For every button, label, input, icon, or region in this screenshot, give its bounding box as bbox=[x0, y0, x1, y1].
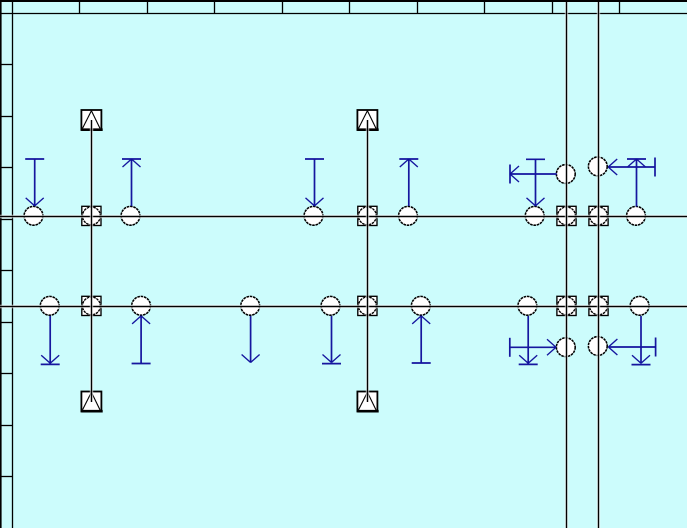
reservoir R4 (square with triangle) bbox=[357, 392, 378, 412]
flow arrow into L4 (left) bbox=[608, 338, 655, 357]
top ruler tick 7 bbox=[484, 2, 486, 14]
vertical pipe D bbox=[597, 2, 600, 528]
flow arrow out of L1 (left) bbox=[510, 165, 557, 184]
valve V1 (square with dashed circle) bbox=[82, 206, 101, 225]
junction node K7 bbox=[630, 296, 649, 315]
junction node K3 bbox=[241, 296, 260, 315]
flow arrow into L3 (right) bbox=[510, 338, 556, 357]
left ruler tick 9 bbox=[0, 476, 13, 478]
junction node K6 bbox=[518, 296, 537, 315]
top ruler tick 5 bbox=[349, 2, 351, 14]
top ruler tick 1 bbox=[79, 2, 81, 14]
valve V7 (square with dashed circle) bbox=[557, 296, 576, 315]
top ruler tick 9 bbox=[619, 2, 621, 14]
top ruler tick 4 bbox=[282, 2, 284, 14]
junction node J3 bbox=[304, 206, 323, 225]
vertical pipe C bbox=[565, 2, 568, 528]
left ruler tick 5 bbox=[0, 270, 13, 272]
valve V4 (square with dashed circle) bbox=[589, 206, 608, 225]
flow arrow into L2 (left) bbox=[608, 158, 655, 177]
valve V8 (square with dashed circle) bbox=[589, 296, 608, 315]
flow arrow into K5 (up) bbox=[412, 316, 431, 363]
top ruler tick 8 bbox=[552, 2, 554, 14]
left ruler tick 4 bbox=[0, 219, 13, 221]
left ruler tick 8 bbox=[0, 425, 13, 427]
junction node L4 bbox=[588, 337, 607, 356]
junction node J4 bbox=[399, 206, 418, 225]
left ruler tick 6 bbox=[0, 322, 13, 324]
vertical pipe A bbox=[90, 120, 93, 402]
top ruler tick 2 bbox=[147, 2, 149, 14]
left ruler tick 7 bbox=[0, 373, 13, 375]
flow arrow into K2 (up) bbox=[132, 316, 151, 364]
flow arrow out of J6 (up) bbox=[627, 159, 646, 207]
flow arrow out of J2 (up) bbox=[122, 159, 141, 206]
sheet margin horizontal line bbox=[0, 13, 687, 15]
reservoir R1 (square with triangle) bbox=[81, 110, 102, 130]
junction node J2 bbox=[121, 206, 140, 225]
junction node K2 bbox=[132, 296, 151, 315]
junction node K4 bbox=[321, 296, 340, 315]
left ruler tick 1 bbox=[0, 64, 13, 66]
sheet margin vertical line bbox=[12, 2, 14, 528]
junction node K1 bbox=[40, 296, 59, 315]
sheet border top edge bbox=[0, 0, 687, 2]
junction node L1 bbox=[556, 165, 575, 184]
flow arrow out of K3 (down, no bar) bbox=[242, 316, 260, 363]
sheet border left edge bbox=[0, 0, 2, 528]
left ruler tick 2 bbox=[0, 116, 13, 118]
flow arrow out of K4 (down) bbox=[322, 316, 341, 364]
valve V3 (square with dashed circle) bbox=[557, 206, 576, 225]
junction node K5 bbox=[411, 296, 430, 315]
main pipe line 2 bbox=[0, 305, 687, 308]
left ruler tick 3 bbox=[0, 167, 13, 169]
flow arrow out of J4 (up) bbox=[399, 159, 418, 206]
flow arrow into J5 (down) bbox=[526, 159, 545, 206]
junction node J6 bbox=[627, 206, 646, 225]
vertical pipe B bbox=[366, 120, 369, 402]
reservoir R3 (square with triangle) bbox=[81, 392, 102, 412]
valve V2 (square with dashed circle) bbox=[358, 206, 377, 225]
flow arrow into J3 (down) bbox=[305, 159, 324, 206]
flow arrow into J1 (down) bbox=[25, 159, 44, 206]
junction node J1 bbox=[24, 206, 43, 225]
junction node L2 bbox=[588, 157, 607, 176]
top ruler tick 3 bbox=[214, 2, 216, 14]
valve V5 (square with dashed circle) bbox=[82, 296, 101, 315]
top ruler tick 6 bbox=[417, 2, 419, 14]
reservoir R2 (square with triangle) bbox=[357, 110, 378, 130]
flow arrow out of K1 (down) bbox=[41, 316, 60, 364]
flow arrow out of K7 (down) bbox=[632, 316, 651, 365]
junction node L3 bbox=[556, 338, 575, 357]
valve V6 (square with dashed circle) bbox=[358, 296, 377, 315]
flow arrow out of K6 (down) bbox=[519, 316, 538, 364]
junction node J5 bbox=[525, 206, 544, 225]
main pipe line 1 bbox=[0, 215, 687, 218]
